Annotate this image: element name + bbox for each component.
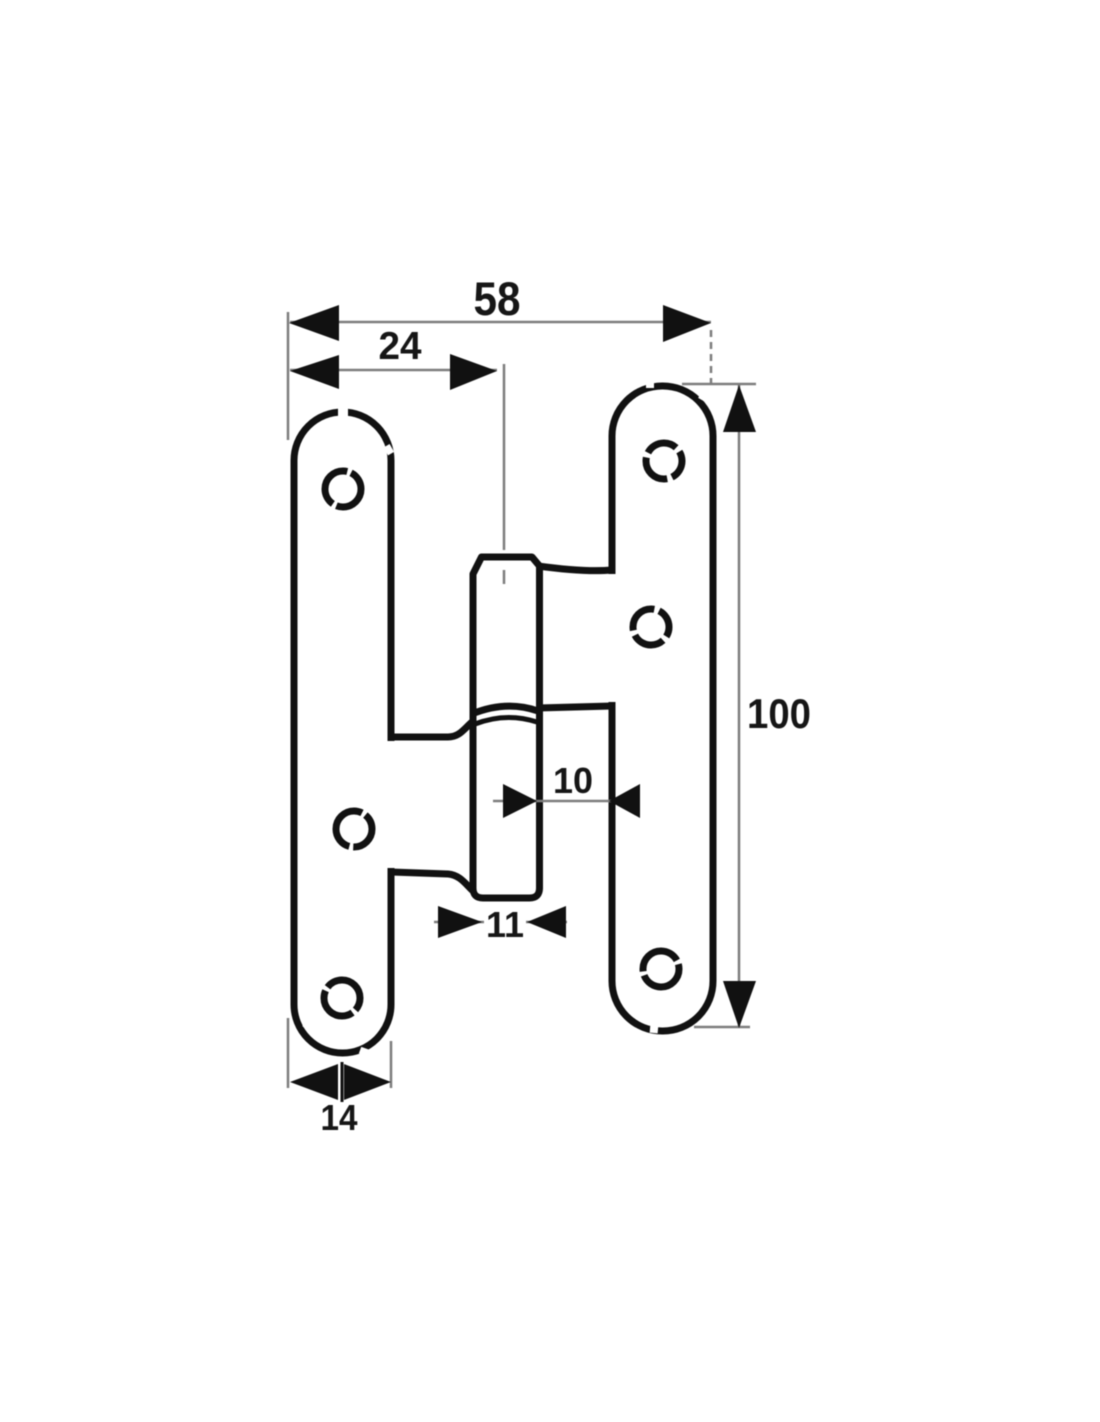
svg-text:24: 24 [379,325,422,368]
svg-text:14: 14 [321,1097,358,1138]
svg-text:100: 100 [747,690,811,737]
svg-text:58: 58 [474,272,521,325]
svg-text:11: 11 [486,904,524,945]
svg-text:10: 10 [553,760,593,801]
